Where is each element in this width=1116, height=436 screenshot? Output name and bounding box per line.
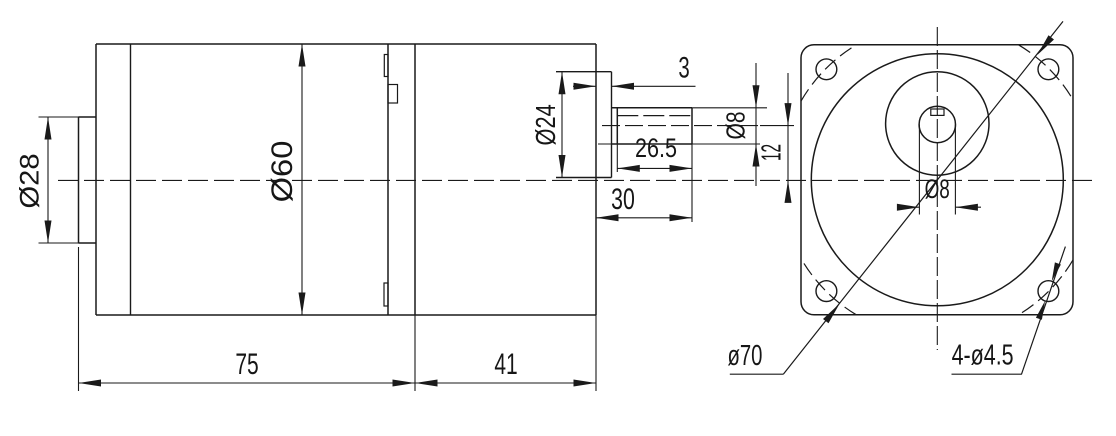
svg-text:30: 30 [611, 181, 635, 216]
Ø8 dimension (side view) [755, 63, 757, 186]
bolt circle arc bottom-right [1019, 260, 1074, 315]
output boss Ø24 [556, 72, 612, 178]
dimension 3 [573, 85, 696, 87]
keyway [931, 109, 944, 115]
corner hole bottom-right [1038, 281, 1059, 302]
svg-text:ø70: ø70 [728, 339, 763, 371]
dimension 12 [787, 73, 789, 199]
motor/gearbox joint line right [414, 44, 416, 315]
svg-text:12: 12 [756, 144, 787, 161]
corner hole bottom-left [816, 281, 837, 302]
4-Ø4.5 leader [1022, 247, 1066, 375]
shaft outline [612, 108, 693, 144]
shaft extension lines [598, 108, 767, 222]
dimension 30 [596, 217, 692, 219]
terminal tab 1 [384, 55, 388, 77]
boss circle [886, 72, 989, 175]
shaft centerline [602, 125, 760, 127]
shaft flat hidden line [617, 115, 692, 117]
Ø28 dimension [47, 117, 49, 243]
svg-text:3: 3 [678, 52, 689, 85]
svg-text:75: 75 [235, 348, 258, 380]
Ø70 leader [783, 21, 1063, 374]
Ø24 dimension [561, 72, 563, 178]
motor body outline (side view) [96, 44, 596, 315]
gearbox circle [811, 54, 1063, 306]
rear boss Ø28 [79, 117, 97, 243]
svg-text:Ø60: Ø60 [265, 141, 298, 203]
Ø28 extension lines [39, 117, 79, 243]
terminal tab 2 [388, 85, 398, 104]
svg-text:Ø8: Ø8 [925, 174, 950, 204]
terminal tab 3 [384, 283, 388, 306]
Ø8 extension lines (front view) [919, 125, 955, 215]
main centerline [58, 179, 1094, 181]
vertical centerline (front view) [936, 27, 938, 350]
svg-text:Ø28: Ø28 [15, 153, 45, 208]
corner hole top-left [816, 59, 837, 80]
svg-text:Ø24: Ø24 [530, 104, 561, 145]
svg-text:4-ø4.5: 4-ø4.5 [952, 340, 1014, 372]
dimension 26.5 [617, 167, 692, 169]
bolt circle arc top-right [1019, 45, 1074, 100]
svg-text:26.5: 26.5 [635, 134, 677, 164]
Ø60 dimension [301, 44, 303, 315]
dimension 75 / 41 [79, 382, 597, 384]
flange square [801, 45, 1073, 315]
shaft circle [919, 106, 955, 142]
bolt circle arc top-left [801, 45, 856, 101]
svg-text:41: 41 [494, 348, 517, 380]
front cap line [130, 44, 132, 315]
motor/gearbox joint line left [387, 44, 389, 315]
bolt circle arc bottom-left [801, 259, 856, 315]
corner hole top-right [1038, 59, 1059, 80]
Ø8 dimension (front view) [897, 206, 981, 208]
